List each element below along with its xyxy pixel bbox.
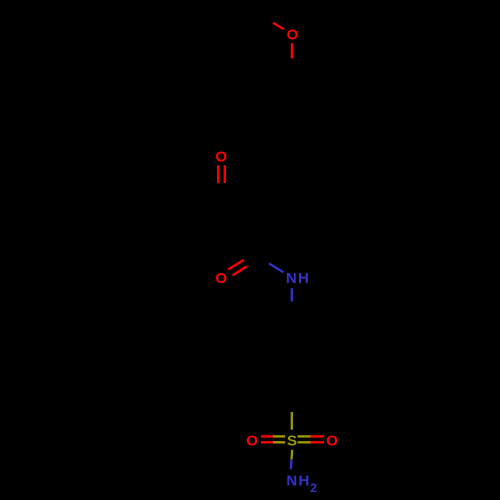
svg-text:O: O [215,149,227,166]
S=O right double bond (olive half / red half) [298,435,311,437]
svg-text:NH: NH [286,473,310,490]
svg-text:O: O [246,433,258,450]
svg-text:NH: NH [286,270,310,287]
amide C-N half bond (blue) [269,263,284,272]
S-N bond olive half [290,450,293,460]
svg-text:S: S [287,433,297,450]
amide C=O double bond red halves [228,260,244,270]
svg-text:O: O [287,26,299,43]
ketone C=O double bond red halves [217,165,219,183]
aryl-S half bond (olive) [291,412,293,430]
S-N bond blue half [290,459,293,469]
aniline ring (black bonds, invisible) [260,321,324,395]
svg-text:O: O [215,270,227,287]
chain skeleton (black, invisible) [184,16,292,412]
svg-text:O: O [326,433,338,450]
svg-text:2: 2 [310,481,317,495]
methoxy CH3-O half bond (red) [273,23,284,29]
N-aryl half bond (blue) [291,288,293,301]
top methoxyphenyl ring (black bonds, invisible) [258,73,326,152]
S=O left double bond (red half / olive half) [261,435,273,437]
O-aryl half bond (red) [291,43,293,58]
left phenyl ring (black bonds, invisible on black) [116,166,184,245]
